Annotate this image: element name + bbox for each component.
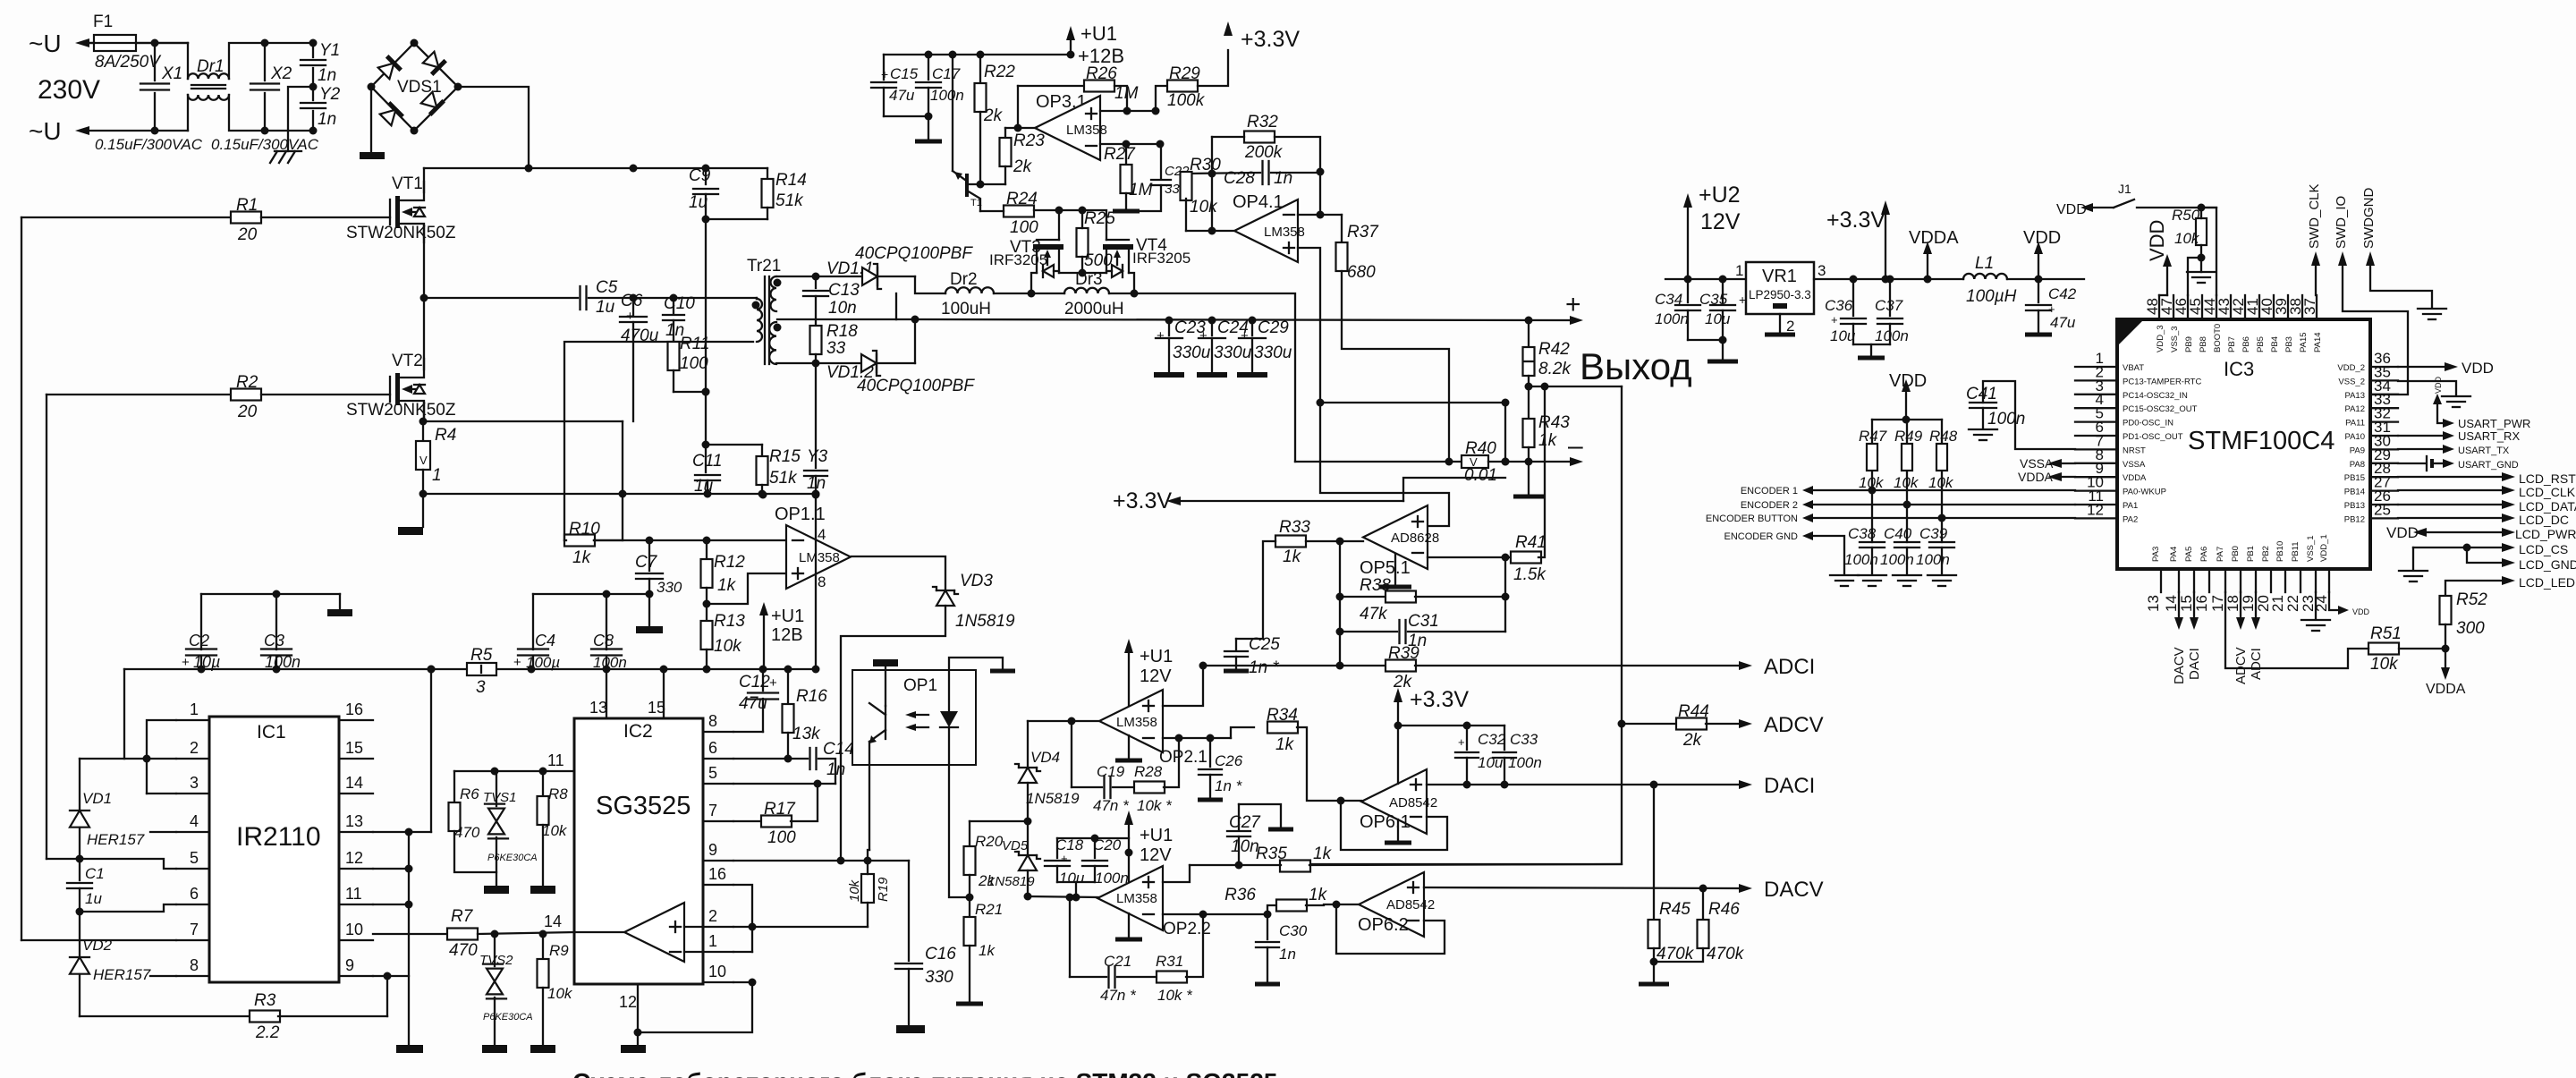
net LCD_CS xyxy=(2413,547,2502,548)
svg-text:VSS_2: VSS_2 xyxy=(2338,377,2365,386)
capacitor X2 xyxy=(264,43,266,81)
svg-text:+U1: +U1 xyxy=(1140,826,1173,845)
svg-text:100n: 100n xyxy=(1987,410,2025,429)
svg-text:IRF3205: IRF3205 xyxy=(989,251,1047,268)
svg-text:C5: C5 xyxy=(596,278,618,297)
svg-text:+U2: +U2 xyxy=(1699,182,1741,208)
svg-text:PA12: PA12 xyxy=(2344,404,2365,414)
wire feedback vertical to DAC nets xyxy=(1309,386,1622,864)
svg-text:PB6: PB6 xyxy=(2241,336,2251,352)
svg-text:R5: R5 xyxy=(470,646,493,665)
net LCD_GND xyxy=(2467,547,2502,563)
svg-text:47n *: 47n * xyxy=(1093,797,1130,814)
IC3 pin 41 PB5 xyxy=(2258,295,2260,319)
svg-text:PC14-OSC32_IN: PC14-OSC32_IN xyxy=(2123,391,2188,401)
IC3 pin 24 VDD_1 xyxy=(2328,569,2330,592)
svg-text:LCD_PWR: LCD_PWR xyxy=(2515,527,2576,541)
ground under IC2 pin12 xyxy=(637,1032,639,1045)
svg-text:C4: C4 xyxy=(535,632,555,649)
svg-text:+: + xyxy=(1199,328,1207,344)
svg-text:AD8628: AD8628 xyxy=(1391,531,1439,546)
svg-text:C6: C6 xyxy=(621,292,643,310)
svg-text:IC2: IC2 xyxy=(623,721,653,742)
IC3 pin 3 PC14-OSC32_IN xyxy=(2075,394,2117,395)
resistor R15 xyxy=(706,444,762,446)
svg-text:330u: 330u xyxy=(1214,344,1252,362)
wire R42 R43 node xyxy=(1529,386,1622,387)
net ADCI at pin19 xyxy=(2255,592,2257,617)
svg-text:15: 15 xyxy=(648,699,665,717)
net +3.3V arrow OP5.1 xyxy=(1166,497,1181,505)
DACI arrow xyxy=(1739,780,1752,789)
wire C9-R14 bottom xyxy=(706,218,767,220)
svg-text:PB2: PB2 xyxy=(2261,546,2271,562)
net VDDA down arrow xyxy=(2445,649,2446,667)
svg-text:PA2: PA2 xyxy=(2123,514,2138,524)
wire C36 C37 ground xyxy=(1853,344,1890,345)
svg-text:LCD_RST: LCD_RST xyxy=(2519,471,2576,486)
svg-text:STMF100C4: STMF100C4 xyxy=(2188,427,2334,455)
svg-text:+: + xyxy=(1157,328,1165,344)
IC3 pin 43 PB7 xyxy=(2230,295,2232,319)
svg-text:ADCV: ADCV xyxy=(1764,713,1824,737)
svg-text:330: 330 xyxy=(657,579,682,596)
svg-text:10µ: 10µ xyxy=(193,653,220,671)
svg-text:5: 5 xyxy=(190,849,199,867)
svg-text:PA13: PA13 xyxy=(2344,391,2365,401)
IC3 pin 9 VDDA xyxy=(2075,476,2117,478)
svg-text:470: 470 xyxy=(454,824,480,841)
wire OP1.1 supply vertical xyxy=(815,495,817,669)
svg-text:R28: R28 xyxy=(1134,763,1163,780)
wire VT2 source node xyxy=(423,403,425,421)
svg-text:470u: 470u xyxy=(621,327,659,345)
svg-text:3: 3 xyxy=(476,678,486,697)
IC3 pin 17 PA7 xyxy=(2224,569,2226,592)
IC3 pin 26 PB13 xyxy=(2370,504,2398,505)
wire pullup rail xyxy=(1872,419,1942,420)
wire J1 to BOOT0 xyxy=(2137,208,2216,295)
wire divider to OP1.1 plus xyxy=(707,573,786,604)
svg-text:1n: 1n xyxy=(318,110,336,129)
resistor R28 10k* xyxy=(1113,786,1135,788)
svg-text:C14: C14 xyxy=(823,740,854,759)
svg-text:NRST: NRST xyxy=(2123,446,2146,455)
svg-text:2: 2 xyxy=(190,739,199,757)
wire logic supply rail xyxy=(124,668,467,670)
svg-text:R22: R22 xyxy=(984,63,1015,81)
svg-text:L1: L1 xyxy=(1975,254,1994,273)
op-amp OP2.1 LM358 xyxy=(1099,690,1163,752)
svg-text:6: 6 xyxy=(190,885,199,903)
capacitor C31 1n feedback xyxy=(1340,631,1397,632)
svg-text:PB9: PB9 xyxy=(2184,336,2194,352)
IC3 pin 46 PB9 xyxy=(2187,295,2189,319)
net LCD_DC at pin25 xyxy=(2398,517,2502,519)
wire C4 C8 tops xyxy=(533,593,649,595)
wire top rail +310V xyxy=(424,167,767,169)
IC IC1 IR2110 xyxy=(209,717,339,982)
svg-text:Tr21: Tr21 xyxy=(747,257,781,276)
wire R10 line to OP1.1 minus xyxy=(594,539,786,541)
capacitor C32 10u xyxy=(1466,726,1468,750)
svg-text:+: + xyxy=(1241,328,1249,344)
svg-text:~U: ~U xyxy=(29,30,62,57)
IC3 pin 33 PA12 xyxy=(2370,407,2398,409)
resistor R31 10k* xyxy=(1117,976,1157,978)
wire DACV line xyxy=(1424,887,1739,888)
svg-text:1u: 1u xyxy=(85,890,102,907)
svg-text:R8: R8 xyxy=(548,785,568,802)
svg-text:R42: R42 xyxy=(1538,340,1570,359)
svg-text:C41: C41 xyxy=(1966,385,1997,403)
svg-text:R51: R51 xyxy=(2370,624,2402,643)
wire OP1 anode to ground xyxy=(949,658,1003,670)
svg-text:100n: 100n xyxy=(1916,551,1950,568)
svg-text:14: 14 xyxy=(544,912,562,930)
svg-text:470k: 470k xyxy=(1707,945,1745,963)
svg-text:VBAT: VBAT xyxy=(2123,363,2144,373)
svg-text:LCD_CS: LCD_CS xyxy=(2519,542,2568,556)
svg-text:IC3: IC3 xyxy=(2224,358,2254,380)
svg-text:1k: 1k xyxy=(1275,735,1295,754)
wire gate-drive return rail xyxy=(423,493,816,495)
IC3 pin 35 VSS_2 xyxy=(2370,379,2398,381)
svg-text:C11: C11 xyxy=(692,452,722,471)
svg-text:~U: ~U xyxy=(29,117,62,145)
svg-text:PB12: PB12 xyxy=(2344,514,2365,524)
svg-text:P6KE30CA: P6KE30CA xyxy=(487,853,538,863)
net VDDA arrow xyxy=(1923,242,1932,254)
IC3 pin 20 PB2 xyxy=(2270,569,2272,592)
svg-text:+: + xyxy=(182,655,190,670)
svg-text:HER157: HER157 xyxy=(87,831,145,848)
IC3 pin 8 VSSA xyxy=(2075,463,2117,464)
svg-text:VR1: VR1 xyxy=(1762,267,1797,286)
svg-text:+U1: +U1 xyxy=(1080,22,1117,45)
svg-text:+: + xyxy=(1831,313,1838,327)
IC2 pin 8 xyxy=(703,731,733,733)
svg-text:13: 13 xyxy=(345,812,363,830)
resistor R44 2k xyxy=(1622,723,1677,725)
svg-text:10: 10 xyxy=(345,921,363,938)
svg-text:ENCODER 1: ENCODER 1 xyxy=(1741,486,1798,497)
svg-text:C12: C12 xyxy=(739,673,770,692)
svg-text:VDD_2: VDD_2 xyxy=(2337,363,2365,373)
svg-text:230V: 230V xyxy=(38,75,100,105)
svg-text:1N5819: 1N5819 xyxy=(1026,790,1080,807)
capacitor C5 xyxy=(424,297,578,299)
svg-text:STW20NK50Z: STW20NK50Z xyxy=(346,401,456,420)
svg-text:VDS1: VDS1 xyxy=(397,78,442,97)
svg-text:16: 16 xyxy=(345,700,363,718)
svg-text:3: 3 xyxy=(1818,262,1826,279)
IC IC3 STMF100C4 xyxy=(2117,319,2370,569)
svg-text:R46: R46 xyxy=(1708,900,1740,919)
svg-text:C30: C30 xyxy=(1279,922,1308,939)
net LCD_CLK at pin27 xyxy=(2398,489,2502,491)
svg-text:–: – xyxy=(1568,431,1583,461)
svg-text:DACV: DACV xyxy=(1764,878,1824,902)
svg-text:+3.3V: +3.3V xyxy=(1826,208,1885,233)
svg-text:USART_PWR: USART_PWR xyxy=(2458,417,2530,430)
svg-text:ENCODER GND: ENCODER GND xyxy=(1724,531,1798,542)
svg-text:100n: 100n xyxy=(265,653,301,671)
svg-text:PA10: PA10 xyxy=(2344,432,2365,442)
svg-text:8: 8 xyxy=(818,573,826,590)
svg-text:VD1: VD1 xyxy=(82,790,112,807)
IC2 pin9 line xyxy=(733,860,909,862)
svg-text:3: 3 xyxy=(190,774,199,792)
svg-text:R14: R14 xyxy=(775,171,807,190)
wire Dr2 to VT3 xyxy=(994,293,1064,294)
wire OP2.2 plus to R35 line xyxy=(1163,865,1190,882)
svg-text:300: 300 xyxy=(2456,619,2485,638)
svg-text:10k: 10k xyxy=(542,822,568,839)
svg-text:10: 10 xyxy=(708,963,726,980)
wire VT1 source down xyxy=(423,225,425,298)
svg-text:Выход: Выход xyxy=(1580,345,1692,387)
svg-text:7: 7 xyxy=(708,802,717,819)
svg-text:PB0: PB0 xyxy=(2231,546,2241,562)
svg-text:+3.3V: +3.3V xyxy=(1241,27,1300,52)
svg-text:1n *: 1n * xyxy=(1215,777,1243,794)
wire C9/R14 node vertical xyxy=(705,168,707,184)
svg-text:J1: J1 xyxy=(2118,182,2131,196)
svg-text:100n: 100n xyxy=(593,654,627,671)
svg-text:4: 4 xyxy=(818,526,826,543)
svg-text:LM358: LM358 xyxy=(1116,715,1157,730)
svg-text:+3.3V: +3.3V xyxy=(1410,687,1469,712)
IC1 pin 10 xyxy=(339,939,373,941)
svg-text:P6KE30CA: P6KE30CA xyxy=(483,1012,533,1023)
svg-text:10n: 10n xyxy=(828,299,857,318)
VR1 pin2 ground xyxy=(1779,314,1781,333)
IC2 pin2 line xyxy=(733,926,868,928)
IC2 pin1 line xyxy=(733,951,752,953)
svg-text:X2: X2 xyxy=(270,64,292,83)
svg-text:R12: R12 xyxy=(714,553,745,572)
svg-text:9: 9 xyxy=(345,956,354,974)
IC2 pin 13 xyxy=(606,669,607,718)
wire 3.3V rail xyxy=(1814,278,1963,280)
IC2 pin 12 xyxy=(637,984,639,1032)
IC2 pin 5 xyxy=(703,783,733,785)
resistor R17 100 xyxy=(733,820,762,822)
wire R3 to pin9 xyxy=(386,976,388,1016)
svg-text:0.15uF/300VAC: 0.15uF/300VAC xyxy=(95,136,203,153)
svg-text:VDD: VDD xyxy=(2462,360,2494,377)
svg-text:C29: C29 xyxy=(1258,318,1289,337)
svg-text:12V: 12V xyxy=(1140,845,1172,865)
ground TVS1 xyxy=(484,886,509,894)
wire OP1 cathode down xyxy=(949,765,970,897)
net USART_GND at pin29 xyxy=(2398,463,2425,464)
IC2 pin 10 xyxy=(703,981,733,983)
svg-text:PC13-TAMPER-RTC: PC13-TAMPER-RTC xyxy=(2123,377,2201,386)
svg-text:100n: 100n xyxy=(1880,551,1914,568)
svg-text:5: 5 xyxy=(708,764,717,782)
IC2 internal op-amp xyxy=(624,903,684,962)
ground R9 xyxy=(530,1045,555,1053)
svg-text:LCD_CLK: LCD_CLK xyxy=(2519,485,2576,499)
IC3 pin 11 PA1 xyxy=(2075,504,2117,505)
svg-text:R19: R19 xyxy=(876,877,891,902)
svg-text:16: 16 xyxy=(2193,595,2210,612)
IC3 pin 36 VDD_2 xyxy=(2370,366,2398,368)
svg-text:10k: 10k xyxy=(2174,230,2200,247)
svg-text:OP5.1: OP5.1 xyxy=(1360,558,1411,578)
svg-text:TVS2: TVS2 xyxy=(479,953,513,968)
IC3 pin 23 VSS_1 xyxy=(2315,569,2317,592)
svg-text:10k: 10k xyxy=(847,879,862,902)
svg-text:1k: 1k xyxy=(1309,886,1328,904)
svg-text:R23: R23 xyxy=(1013,132,1045,150)
op-amp OP6.1 AD8542 xyxy=(1361,769,1427,834)
svg-text:VD3: VD3 xyxy=(960,572,993,590)
IC3 pin 31 PA10 xyxy=(2370,435,2398,437)
svg-text:0.15uF/300VAC: 0.15uF/300VAC xyxy=(211,136,319,153)
svg-text:Y3: Y3 xyxy=(807,447,828,466)
svg-text:8A/250V: 8A/250V xyxy=(95,53,162,72)
svg-text:VDDA: VDDA xyxy=(2426,682,2466,697)
svg-text:51k: 51k xyxy=(775,191,804,210)
svg-text:R41: R41 xyxy=(1515,533,1546,552)
svg-text:OP2.1: OP2.1 xyxy=(1159,748,1207,767)
svg-text:C9: C9 xyxy=(689,166,711,185)
svg-text:R16: R16 xyxy=(796,687,827,706)
svg-text:STW20NK50Z: STW20NK50Z xyxy=(346,224,456,242)
op-amp OP6.2 AD8542 xyxy=(1359,872,1424,937)
svg-text:C8: C8 xyxy=(593,632,614,649)
svg-text:1n *: 1n * xyxy=(1249,658,1279,677)
wire pin6 net xyxy=(80,904,176,912)
svg-text:VDD: VDD xyxy=(2434,376,2443,394)
svg-text:1k: 1k xyxy=(572,548,592,567)
IC2 pin10 to pin12 ground xyxy=(733,981,752,983)
svg-text:1: 1 xyxy=(708,932,717,950)
svg-text:V: V xyxy=(419,454,428,467)
svg-text:1: 1 xyxy=(432,466,442,485)
svg-text:100n: 100n xyxy=(1508,754,1542,771)
IC3 pin 25 PB12 xyxy=(2370,517,2398,519)
svg-text:20: 20 xyxy=(237,403,258,421)
svg-text:100uH: 100uH xyxy=(941,300,991,318)
resistor R14 xyxy=(767,168,768,179)
net +U1 12V arrow OP2.2 xyxy=(1124,811,1133,825)
svg-text:100: 100 xyxy=(767,828,796,847)
IC3 pin 40 PB4 xyxy=(2273,295,2275,319)
svg-text:10u: 10u xyxy=(1830,327,1856,344)
svg-text:1M: 1M xyxy=(1129,181,1153,199)
svg-text:680: 680 xyxy=(1347,263,1376,282)
svg-text:2k: 2k xyxy=(983,106,1004,125)
svg-text:C17: C17 xyxy=(932,65,961,82)
IC3 pin 6 PD1-OSC_OUT xyxy=(2075,435,2117,437)
wire secondary top xyxy=(776,276,816,277)
svg-text:R45: R45 xyxy=(1659,900,1690,919)
svg-text:R6: R6 xyxy=(460,785,479,802)
svg-text:BOOT0: BOOT0 xyxy=(2213,324,2223,352)
IC3 pin 12 PA2 xyxy=(2075,517,2117,519)
svg-text:10k: 10k xyxy=(714,637,742,656)
svg-text:C27: C27 xyxy=(1229,813,1261,832)
bridge rectifier VDS1 xyxy=(371,43,458,131)
IC3 pin 27 PB14 xyxy=(2370,489,2398,491)
IC1 pin 16 xyxy=(339,719,373,721)
IC2 pin 2 xyxy=(703,926,733,928)
capacitor C14 1n xyxy=(733,758,808,760)
wire R2 line vertical xyxy=(46,395,47,859)
svg-text:PA1: PA1 xyxy=(2123,501,2138,511)
svg-text:10k *: 10k * xyxy=(1137,797,1173,814)
wire pin12 stub xyxy=(373,868,409,870)
svg-text:100µH: 100µH xyxy=(1966,287,2017,306)
svg-text:PA7: PA7 xyxy=(2216,547,2225,562)
capacitor C25 1n* xyxy=(1235,639,1237,650)
ground TVS2 xyxy=(482,1045,507,1053)
svg-text:R37: R37 xyxy=(1347,223,1379,242)
net VDD arrow at L1 xyxy=(2034,242,2043,254)
wire OP2.1 output to VD4 xyxy=(1028,720,1098,722)
svg-text:2000uH: 2000uH xyxy=(1064,300,1124,318)
capacitor C16 330 xyxy=(908,861,910,961)
svg-text:DACV: DACV xyxy=(2172,647,2187,684)
svg-text:R18: R18 xyxy=(826,322,858,341)
svg-text:PB4: PB4 xyxy=(2270,336,2280,352)
resistor R29 100k xyxy=(1156,86,1167,111)
svg-text:C3: C3 xyxy=(264,632,284,649)
wire primary return xyxy=(564,342,753,540)
IC IC2 SG3525 xyxy=(574,718,703,984)
svg-text:OP6.1: OP6.1 xyxy=(1360,812,1411,832)
svg-text:ENCODER BUTTON: ENCODER BUTTON xyxy=(1706,514,1798,524)
svg-text:C2: C2 xyxy=(189,632,209,649)
wire sense to OP5.1 plus xyxy=(1320,403,1449,526)
net DACV at pin14 xyxy=(2178,592,2180,617)
ground OP2.1 xyxy=(1128,735,1130,759)
IC1 pin 3 xyxy=(176,793,209,794)
wire OP5.1 ground xyxy=(1394,554,1396,585)
svg-text:OP1: OP1 xyxy=(903,676,937,695)
wire VD1 top xyxy=(80,758,124,760)
svg-text:PB13: PB13 xyxy=(2344,501,2365,511)
IC3 pin 29 PA8 xyxy=(2370,463,2398,464)
IC1 pin 13 xyxy=(339,831,373,833)
DACV arrow xyxy=(1739,884,1752,893)
svg-text:VSS_3: VSS_3 xyxy=(2170,326,2180,352)
svg-text:SWD_IO: SWD_IO xyxy=(2334,196,2349,249)
svg-text:7: 7 xyxy=(190,921,199,938)
svg-text:R32: R32 xyxy=(1247,113,1278,132)
svg-text:10k: 10k xyxy=(1190,198,1218,216)
svg-text:330u: 330u xyxy=(1254,344,1292,362)
IC2 pin 15 xyxy=(663,669,665,718)
IC3 pin 42 PB6 xyxy=(2244,295,2246,319)
svg-text:R21: R21 xyxy=(975,901,1003,918)
svg-text:R15: R15 xyxy=(769,447,801,466)
svg-text:R3: R3 xyxy=(254,991,276,1010)
svg-text:2k: 2k xyxy=(978,872,996,889)
svg-text:SWDGND: SWDGND xyxy=(2361,188,2377,249)
IC1 pin 2 xyxy=(176,758,209,760)
svg-text:8: 8 xyxy=(190,956,199,974)
ground at pin23 VSS_1 xyxy=(2315,592,2317,618)
svg-text:12V: 12V xyxy=(1140,666,1172,686)
svg-text:Схема лабораторного блока пита: Схема лабораторного блока питания на STM… xyxy=(572,1068,1277,1078)
svg-text:+: + xyxy=(1061,852,1068,865)
wire R37 to R40 left xyxy=(1342,271,1449,462)
